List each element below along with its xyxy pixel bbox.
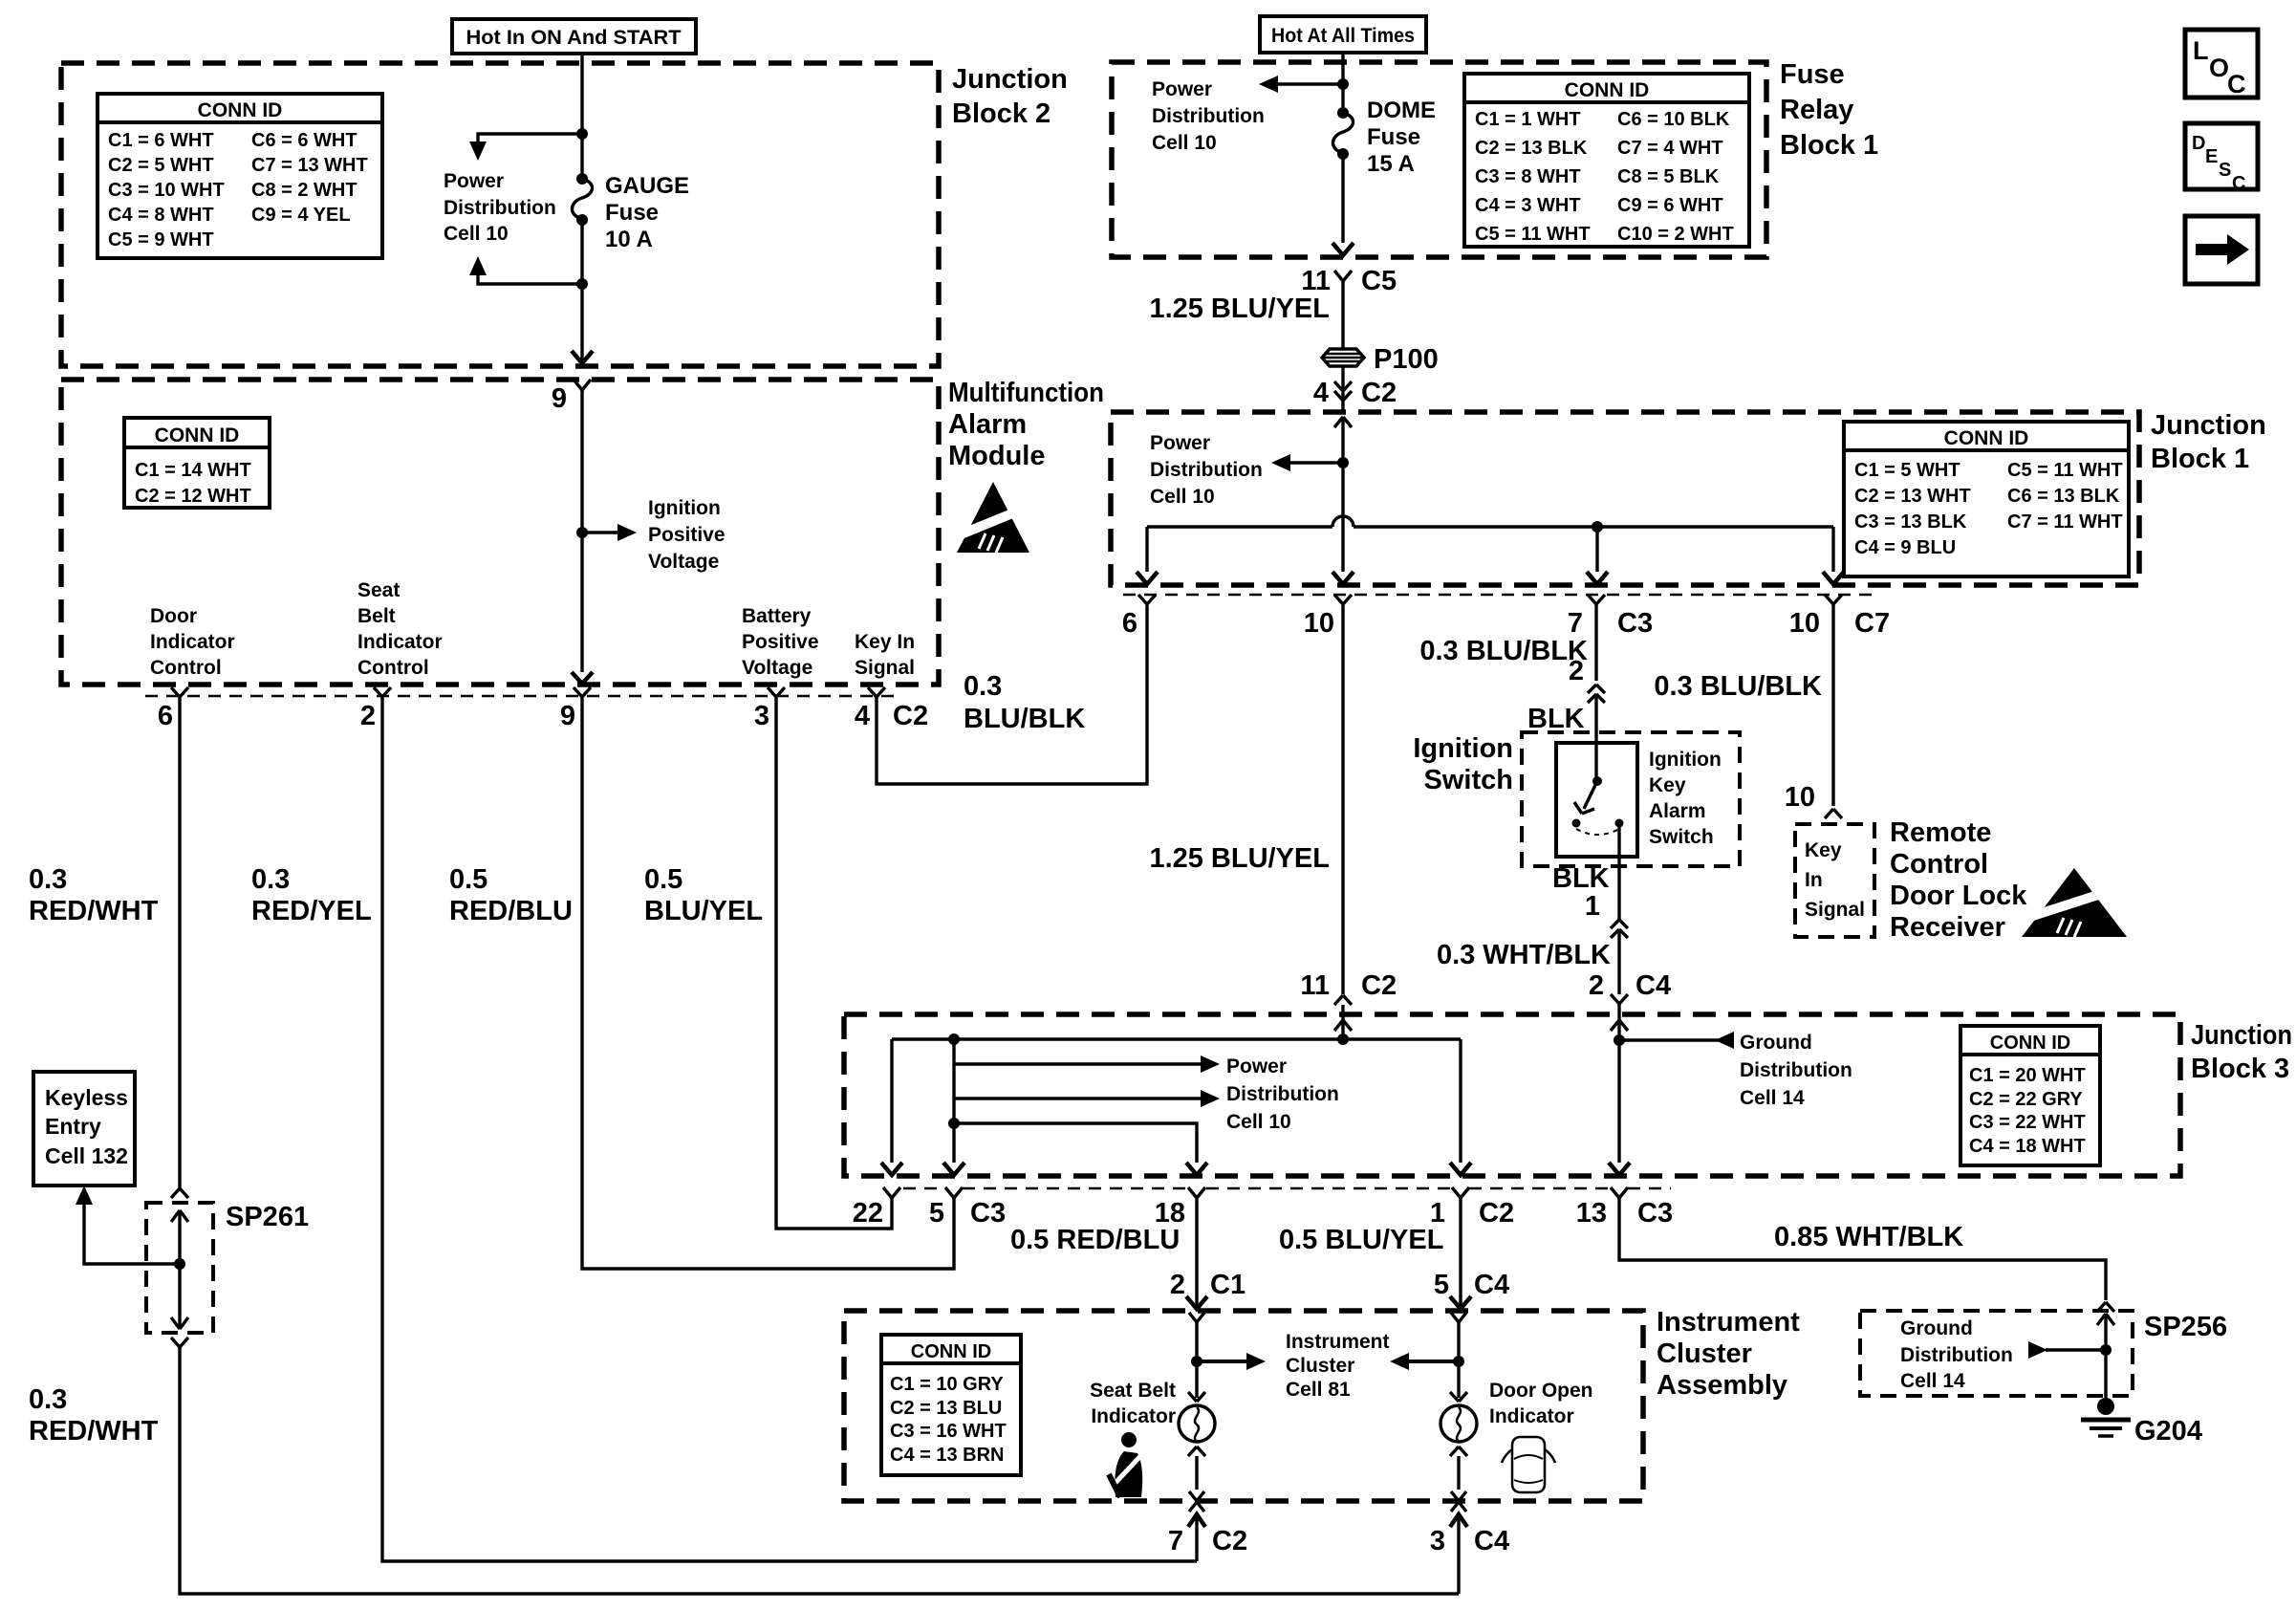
wire pin1 C2 to cluster pin5 C4 [1434,1198,1509,1309]
svg-text:10: 10 [1304,608,1334,639]
wire pin10 C7 to remote receiver [1654,604,1842,818]
svg-text:6: 6 [1122,608,1137,639]
svg-text:Cell 14: Cell 14 [1900,1370,1965,1392]
connector pin 1 C2 [1430,1187,1514,1229]
svg-text:22: 22 [853,1198,883,1229]
CONN ID table (Junction Block 3) [1960,1026,2100,1165]
JB3 bottom connector strip (fine dashed) [903,1187,1671,1190]
wire label 0.3 RED/YEL [251,864,372,926]
svg-text:Voltage: Voltage [742,657,812,679]
fuse relay block 1 dashed box [1112,62,1766,257]
svg-text:7: 7 [1168,1526,1183,1556]
svg-text:S: S [2219,160,2231,181]
svg-text:C1 = 20 WHT: C1 = 20 WHT [1969,1065,2086,1086]
svg-text:SP261: SP261 [226,1202,309,1232]
svg-text:C8 = 5 BLK: C8 = 5 BLK [1617,166,1720,187]
wire branch to Power Distribution (lower arrow up) [469,256,582,284]
svg-text:Distribution: Distribution [1740,1059,1852,1081]
power tag box "Hot In ON And START" [452,19,696,54]
svg-text:C5 = 11 WHT: C5 = 11 WHT [1475,224,1591,245]
node dot to Power Distribution (JB1) [1271,454,1349,471]
svg-text:0.3 BLU/BLK: 0.3 BLU/BLK [1419,636,1588,666]
svg-text:C5 = 9 WHT: C5 = 9 WHT [108,229,214,250]
svg-text:Fuse: Fuse [1780,59,1845,90]
node dot to Ignition Positive Voltage [576,524,637,541]
label Ignition Switch [1413,733,1513,795]
connector pin 9 into Multifunction Alarm Module [552,380,591,414]
svg-text:Battery: Battery [742,605,812,627]
svg-text:0.85 WHT/BLK: 0.85 WHT/BLK [1774,1222,1963,1252]
svg-text:Module: Module [948,441,1046,471]
svg-text:Cell 10: Cell 10 [1226,1111,1291,1133]
wire main through JB1 [1332,417,1354,584]
svg-text:C7 = 11 WHT: C7 = 11 WHT [2007,511,2123,533]
svg-text:L: L [2193,36,2209,65]
key in signal dashed box [1795,824,1874,937]
wire JB1 pin10(C7) drop [1823,527,1844,584]
label Power Distribution Cell 10 (JB1) [1150,432,1263,508]
svg-text:13: 13 [1576,1198,1607,1229]
label Seat Belt Indicator [1090,1380,1176,1427]
JB1 bottom connector strip (fine dashed) [1123,594,1874,597]
svg-text:Voltage: Voltage [648,551,719,573]
svg-text:RED/BLU: RED/BLU [449,896,573,926]
svg-text:C7 = 13 WHT: C7 = 13 WHT [251,155,368,176]
junction block 3 dashed box [844,1014,2180,1176]
svg-text:Positive: Positive [648,524,726,546]
wire label 0.3 BLU/BLK (key in signal) [964,671,1085,734]
svg-text:CONN ID: CONN ID [1944,427,2029,449]
svg-text:Receiver: Receiver [1890,912,2005,943]
svg-text:C4: C4 [1474,1526,1509,1556]
connector pin 10 C7 [1789,595,1890,639]
svg-text:Power: Power [1226,1055,1287,1077]
svg-text:In: In [1805,869,1823,891]
svg-text:Signal: Signal [1805,899,1865,921]
svg-text:2: 2 [1589,970,1604,1001]
CONN ID table (Instrument Cluster) [881,1335,1021,1475]
svg-text:11: 11 [1301,266,1331,296]
keyless entry box [33,1072,135,1186]
svg-text:Ignition: Ignition [648,497,721,519]
svg-text:Cell 81: Cell 81 [1286,1379,1351,1401]
connector pin 2 C4 (into JB3) [1589,970,1671,1015]
svg-text:Distribution: Distribution [1152,105,1265,127]
svg-text:C2: C2 [1361,378,1397,408]
svg-text:C9 = 4 YEL: C9 = 4 YEL [251,205,351,226]
svg-text:0.3 WHT/BLK: 0.3 WHT/BLK [1437,940,1611,970]
svg-text:Key: Key [1649,774,1686,796]
svg-text:4: 4 [855,701,870,731]
wire JB3 pin1 C2 drop [1450,1039,1471,1175]
svg-text:P100: P100 [1374,344,1439,375]
svg-text:Hot In ON And START: Hot In ON And START [466,27,682,49]
ESD symbol (Remote Control Door Lock Receiver) [2009,868,2134,937]
label Door Open Indicator [1489,1380,1593,1427]
svg-text:Door: Door [150,605,197,627]
connector pin 18 [1155,1187,1205,1229]
wire JB3 pin5 drop [943,1033,964,1175]
node junction dot lower [576,278,588,290]
svg-text:0.3: 0.3 [29,1384,67,1415]
wire from Hot In ON And START into JB2 [580,54,583,179]
seat belt indicator lamp [1179,1392,1215,1490]
svg-text:C7 = 4 WHT: C7 = 4 WHT [1617,138,1723,159]
svg-text:10 A: 10 A [605,227,653,252]
splice SP261 internal arrows [171,1210,188,1329]
node dot to Instrument Cluster Cell 81 (left) [1191,1353,1266,1370]
wire pin2 RED/YEL to cluster pin7 C2 [382,697,1197,1561]
svg-text:0.3 BLU/BLK: 0.3 BLU/BLK [1654,671,1822,702]
svg-text:5: 5 [929,1198,944,1229]
svg-text:9: 9 [560,701,575,731]
node dot to Power Distribution (FRB1) [1259,76,1349,93]
svg-text:RED/YEL: RED/YEL [251,896,372,926]
wire JB3 pin22 drop [881,1039,902,1175]
svg-text:Alarm: Alarm [1649,800,1706,822]
wire pin6 RED/WHT down to SP261 [171,697,188,1198]
label Instrument Cluster Cell 81 [1286,1331,1390,1401]
svg-text:1.25 BLU/YEL: 1.25 BLU/YEL [1149,843,1330,874]
svg-text:C1 = 5 WHT: C1 = 5 WHT [1854,460,1960,481]
CONN ID table (Fuse Relay Block 1) [1464,74,1749,247]
CONN ID table (Multifunction Alarm Module) [124,418,270,508]
svg-text:0.3: 0.3 [251,864,290,895]
branch arrows to Power Distribution Cell 10 (JB3) [954,1055,1220,1107]
label Remote Control Door Lock Receiver [1890,817,2027,943]
svg-text:Instrument: Instrument [1286,1331,1390,1353]
svg-text:BLK: BLK [1552,863,1610,894]
svg-text:C2: C2 [1479,1198,1514,1229]
svg-text:CONN ID: CONN ID [1565,79,1650,101]
svg-text:5: 5 [1434,1270,1449,1300]
svg-text:C2 = 13 BLU: C2 = 13 BLU [890,1398,1002,1419]
svg-text:Distribution: Distribution [444,197,556,219]
svg-text:Key: Key [1805,839,1842,861]
svg-text:Indicator: Indicator [1091,1405,1176,1427]
svg-text:10: 10 [1789,608,1820,639]
svg-text:C4 = 18 WHT: C4 = 18 WHT [1969,1136,2086,1157]
connector pin 2 [360,687,391,731]
svg-text:Seat: Seat [357,579,400,601]
svg-text:15 A: 15 A [1367,151,1415,177]
label Fuse Relay Block 1 [1780,59,1878,161]
splice SP256 dashed box [1860,1311,2227,1396]
door open car icon [1502,1437,1555,1492]
ESD symbol (Multifunction Alarm Module) [944,482,1038,553]
svg-text:Junction: Junction [2191,1020,2292,1051]
svg-text:Block 2: Block 2 [952,98,1051,129]
svg-text:1.25 BLU/YEL: 1.25 BLU/YEL [1149,294,1330,324]
svg-text:RED/WHT: RED/WHT [29,896,159,926]
wire main entry arrow into JB3 [1334,1015,1352,1039]
svg-text:GAUGE: GAUGE [605,173,689,199]
svg-text:2: 2 [1569,656,1584,686]
svg-text:Cluster: Cluster [1657,1338,1752,1369]
svg-text:Cell 14: Cell 14 [1740,1087,1805,1109]
svg-text:C2 = 22 GRY: C2 = 22 GRY [1969,1089,2083,1110]
CONN ID table (Junction Block 1) [1844,422,2129,577]
wire 1.25 BLU/YEL to P100 [1149,281,1343,350]
svg-text:C4 = 3 WHT: C4 = 3 WHT [1475,195,1581,216]
svg-text:Key In: Key In [855,631,915,653]
svg-text:Control: Control [357,657,429,679]
svg-text:C3 = 10 WHT: C3 = 10 WHT [108,180,225,201]
svg-text:BLU/BLK: BLU/BLK [964,704,1085,734]
svg-text:C: C [2232,173,2245,194]
svg-text:Block 1: Block 1 [2151,444,2249,474]
svg-text:C1 = 14 WHT: C1 = 14 WHT [135,460,251,481]
junction block 2 dashed box [61,63,939,366]
svg-text:C5: C5 [1361,266,1397,296]
label Power Distribution Cell 10 (FRB1) [1152,78,1265,154]
svg-text:C5 = 11 WHT: C5 = 11 WHT [2007,460,2123,481]
svg-text:D: D [2192,133,2205,154]
svg-text:C4 = 8 WHT: C4 = 8 WHT [108,205,214,226]
connector pin 4 C2 [855,687,928,731]
connector pin 3 [754,687,785,731]
svg-text:Multifunction: Multifunction [948,378,1104,408]
svg-text:Distribution: Distribution [1150,459,1263,481]
svg-text:0.5 RED/BLU: 0.5 RED/BLU [1010,1225,1180,1255]
svg-text:7: 7 [1568,608,1583,639]
svg-text:Indicator: Indicator [357,631,443,653]
splice SP261 dashed box [146,1202,309,1333]
connector below SP261 [171,1338,188,1347]
label Junction Block 2 [952,64,1068,129]
wire pin9 RED/BLU to JB3 pin5 C3 [582,697,954,1269]
wire pin9 through MAM [572,390,593,684]
label Multifunction Alarm Module [948,378,1104,471]
svg-text:Junction: Junction [2151,410,2266,441]
wire JB3 pin18 drop [948,1118,1207,1175]
svg-text:C2 = 13 BLK: C2 = 13 BLK [1475,138,1588,159]
wire from Hot At All Times [1341,53,1344,113]
inline connector P100 [1322,344,1439,375]
wire cluster pin2 C1 to seat belt indicator [1189,1313,1204,1398]
svg-text:0.5 BLU/YEL: 0.5 BLU/YEL [1279,1225,1443,1255]
svg-text:C4: C4 [1635,970,1671,1001]
svg-text:2: 2 [360,701,376,731]
svg-text:C3: C3 [1617,608,1653,639]
svg-text:O: O [2209,54,2229,82]
svg-text:Block 3: Block 3 [2191,1054,2289,1084]
svg-text:Alarm: Alarm [948,409,1027,440]
wire pin18 to cluster pin2 C1 [1170,1198,1245,1309]
ignition switch inner box [1556,743,1637,857]
door open indicator lamp [1440,1313,1477,1490]
label Instrument Cluster Assembly [1657,1307,1800,1401]
label Ground Distribution Cell 14 [1740,1032,1852,1109]
svg-text:Ground: Ground [1900,1317,1973,1339]
svg-text:Assembly: Assembly [1657,1370,1787,1401]
instrument cluster assembly dashed box [844,1311,1643,1501]
wire JB1 pin6 drop [1137,527,1158,584]
svg-text:BLU/YEL: BLU/YEL [644,896,763,926]
svg-text:C3 = 16 WHT: C3 = 16 WHT [890,1421,1007,1442]
svg-text:C10 = 2 WHT: C10 = 2 WHT [1617,224,1734,245]
svg-text:C1: C1 [1210,1270,1245,1300]
svg-text:C2: C2 [1361,970,1397,1001]
svg-text:Distribution: Distribution [1226,1083,1339,1105]
LOC reference box [2185,30,2258,98]
svg-text:Seat Belt: Seat Belt [1090,1380,1176,1402]
DESC reference box [2185,123,2258,194]
MAM bottom connector strip (fine dashed) [145,695,899,698]
svg-text:Distribution: Distribution [1900,1344,2013,1366]
svg-text:C1 = 6 WHT: C1 = 6 WHT [108,130,214,151]
connector pin 4 C2 (into JB1) [1313,366,1397,412]
svg-text:Cell 10: Cell 10 [444,223,509,245]
forward arrow reference box [2185,216,2258,284]
svg-text:Ignition: Ignition [1649,749,1722,771]
svg-text:CONN ID: CONN ID [198,99,283,121]
svg-text:Door Open: Door Open [1489,1380,1593,1402]
ground G204 [2081,1398,2202,1447]
svg-text:Power: Power [444,170,504,192]
node dot to Instrument Cluster Cell 81 (right) [1390,1353,1464,1370]
svg-text:C3 = 8 WHT: C3 = 8 WHT [1475,166,1581,187]
label Junction Block 1 [2151,410,2266,474]
svg-text:Door Lock: Door Lock [1890,881,2027,911]
connector pin 11 C5 [1301,266,1397,296]
switch contacts and lever [1572,776,1624,835]
svg-text:Cluster: Cluster [1286,1355,1354,1377]
svg-text:C2: C2 [893,701,928,731]
fuse GAUGE Fuse 10 A [572,173,689,252]
svg-text:Block 1: Block 1 [1780,130,1878,161]
connector pin 10 (JB1) [1304,595,1352,639]
node junction dot upper [576,128,588,140]
svg-text:C8 = 2 WHT: C8 = 2 WHT [251,180,357,201]
svg-text:C: C [2227,70,2246,98]
svg-text:0.5: 0.5 [449,864,487,895]
connector pin 13 C3 [1576,1187,1673,1229]
svg-text:Belt: Belt [357,605,396,627]
wire main JB1 pin10 down to JB3 [1149,604,1397,1015]
wire pin4 C2 to JB1 pin6 [877,604,1147,784]
svg-text:Power: Power [1150,432,1210,454]
wire branch to Power Distribution (upper arrow) [469,134,582,161]
svg-text:Junction: Junction [952,64,1068,95]
node dot to Ground Distribution Cell 14 [1614,1032,1734,1049]
svg-text:C3: C3 [1637,1198,1673,1229]
wire pin2 C4 through JB3 to pin13 C3 [1609,1015,1630,1175]
svg-text:Instrument: Instrument [1657,1307,1800,1338]
svg-text:Cell 10: Cell 10 [1150,486,1215,508]
svg-text:3: 3 [1430,1526,1445,1556]
connector pin 7 C3 [1568,595,1653,639]
svg-text:Hot At All Times: Hot At All Times [1271,25,1415,47]
svg-text:4: 4 [1313,378,1329,408]
svg-text:Switch: Switch [1424,765,1513,795]
splice SP256 internal wire [2097,1314,2114,1400]
svg-text:Control: Control [150,657,222,679]
svg-text:C6 = 13 BLK: C6 = 13 BLK [2007,486,2120,507]
cluster bottom connector pin 7 C2 [1168,1491,1247,1561]
fuse DOME Fuse 15 A [1332,98,1436,177]
connector pin 5 C3 [929,1187,1006,1229]
svg-text:Control: Control [1890,849,1988,880]
cluster bottom connector pin 3 C4 [1430,1491,1509,1594]
svg-text:Keyless: Keyless [45,1085,128,1110]
svg-text:Ignition: Ignition [1413,733,1513,764]
svg-text:9: 9 [552,383,567,414]
svg-text:C1 = 10 GRY: C1 = 10 GRY [890,1374,1004,1395]
svg-text:Signal: Signal [855,657,915,679]
connector pin 6 [158,687,188,731]
wire ignition switch to pin2 C4 [1437,823,1628,994]
svg-text:C9 = 6 WHT: C9 = 6 WHT [1617,195,1723,216]
svg-text:C1 = 1 WHT: C1 = 1 WHT [1475,109,1581,130]
svg-text:Entry: Entry [45,1114,101,1139]
svg-text:RED/WHT: RED/WHT [29,1416,159,1447]
label Power Distribution Cell 10 (JB2) [444,170,556,245]
svg-text:C6 = 10 BLK: C6 = 10 BLK [1617,109,1730,130]
svg-text:G204: G204 [2134,1416,2202,1447]
svg-text:Fuse: Fuse [1367,124,1420,150]
svg-text:0.3: 0.3 [964,671,1002,702]
wire label 0.3 RED/WHT [29,864,159,926]
wire DOME fuse to FRB1 bottom with arrow [1332,154,1354,255]
wire label 0.3 RED/WHT (lower) [29,1384,159,1447]
label Ground Distribution Cell 14 (SP256) with arrow [1900,1317,2106,1392]
seat belt person icon [1109,1432,1143,1497]
bus bar inside JB3 [892,1033,1461,1045]
svg-text:C4 = 13 BRN: C4 = 13 BRN [890,1445,1005,1466]
connector pin 22 [853,1187,900,1229]
junction block 1 dashed box [1111,412,2139,585]
svg-text:C2 = 12 WHT: C2 = 12 WHT [135,486,251,507]
svg-text:Cell 132: Cell 132 [45,1143,128,1168]
svg-text:11: 11 [1300,970,1330,1001]
svg-text:6: 6 [158,701,173,731]
svg-text:Relay: Relay [1780,95,1853,125]
svg-text:Indicator: Indicator [1489,1405,1574,1427]
svg-text:CONN ID: CONN ID [155,424,240,446]
svg-text:Fuse: Fuse [605,200,659,226]
svg-text:0.5: 0.5 [644,864,682,895]
svg-text:C4 = 9 BLU: C4 = 9 BLU [1854,537,1956,558]
svg-text:C2 = 13 WHT: C2 = 13 WHT [1854,486,1971,507]
svg-text:BLK: BLK [1527,704,1585,734]
svg-text:Indicator: Indicator [150,631,235,653]
wire label 0.3 BLU/BLK (pin7 C3) [1419,636,1588,666]
connector pin 6 (JB1) [1122,595,1156,639]
wire label 0.5 RED/BLU [449,864,573,926]
svg-text:C3 = 22 WHT: C3 = 22 WHT [1969,1112,2086,1133]
svg-text:C7: C7 [1854,608,1890,639]
power tag box "Hot At All Times" [1260,16,1426,53]
label Power Distribution Cell 10 (JB3) [1226,1055,1339,1133]
svg-text:CONN ID: CONN ID [911,1341,991,1362]
svg-text:E: E [2205,146,2218,167]
svg-text:C4: C4 [1474,1270,1509,1300]
svg-text:Cell 10: Cell 10 [1152,132,1217,154]
bus bar inside JB1 with hop over main wire [1147,516,1833,527]
CONN ID table (Junction Block 2) [97,94,382,258]
node dot on bus to pin7 [1587,521,1608,584]
wire below fuse [580,220,583,284]
svg-text:0.3: 0.3 [29,864,67,895]
label Ignition Positive Voltage [648,497,726,573]
svg-text:SP256: SP256 [2144,1312,2227,1342]
wire branch to Keyless Entry [76,1186,180,1264]
svg-text:C2 = 5 WHT: C2 = 5 WHT [108,155,214,176]
svg-text:C2: C2 [1212,1526,1247,1556]
labels inside MAM bottom [150,605,235,679]
svg-text:DOME: DOME [1367,98,1436,123]
